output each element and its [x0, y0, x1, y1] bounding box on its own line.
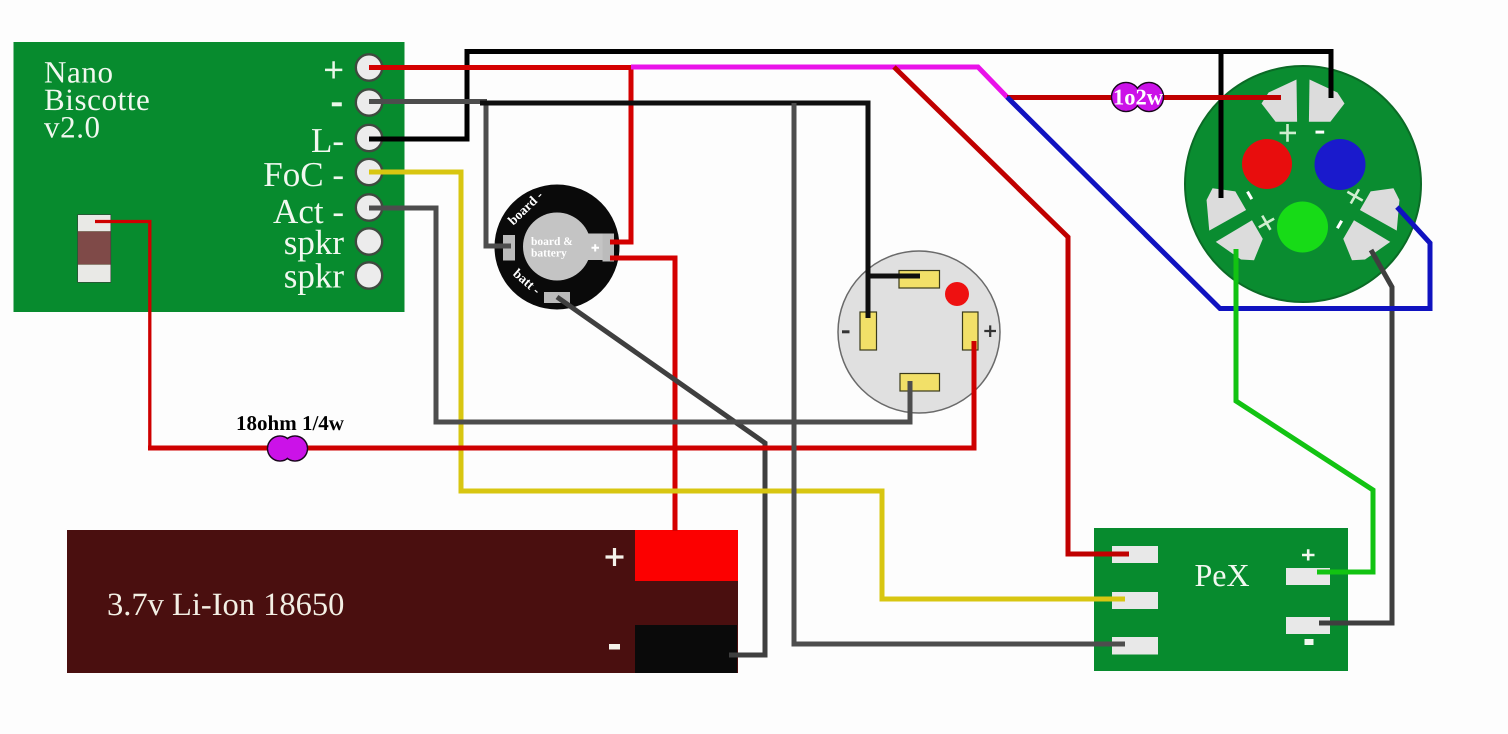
battery positive terminal: [635, 530, 738, 581]
svg-text:18ohm 1/4w: 18ohm 1/4w: [236, 411, 345, 435]
switch S1 left pad: [860, 312, 877, 350]
wire magenta + rail: [631, 67, 1007, 97]
resistor R1 18ohm 1/4w: [236, 411, 345, 461]
svg-text:FoC -: FoC -: [263, 155, 344, 194]
LED die red: [1242, 139, 1292, 189]
switch S1 body: [838, 251, 1000, 413]
wire red recharge port to battery +: [610, 258, 675, 531]
wire red + feed to LED star through R2: [1007, 95, 1281, 100]
recharge port bottom terminal (batt -): [544, 292, 570, 303]
pad + of U1: [356, 54, 382, 80]
LED die green: [1277, 202, 1328, 253]
switch S1 bottom pad: [900, 374, 940, 392]
PeX output pad +: [1286, 568, 1330, 585]
wire grey ground down to PeX pad 3: [794, 103, 1125, 644]
wire yellow FoC- to PeX pad 2: [369, 172, 1125, 599]
wire red switch LED through R1: [148, 341, 974, 448]
wire grey ground down to recharge port board-: [486, 102, 511, 247]
svg-text:battery: battery: [531, 248, 567, 260]
pad spkr2 of U1: [356, 262, 382, 288]
wire black L- net: U1 L- pad up and across to LED star: [369, 52, 1331, 140]
battery negative terminal: [635, 625, 737, 673]
recharge port right terminal (board & battery +): [603, 234, 615, 262]
switch S1 label +: [984, 325, 996, 337]
battery BT1 3.7v Li-Ion 18650 body: [67, 530, 738, 673]
PeX output pad -: [1286, 617, 1330, 634]
svg-text:v2.0: v2.0: [44, 110, 101, 145]
resistor R2 1o2w: [1112, 83, 1164, 112]
svg-text:PeX: PeX: [1194, 557, 1249, 593]
pad FoC- of U1: [356, 159, 382, 185]
pad Act- of U1: [356, 194, 382, 220]
wire black ground across to switch left pad: [480, 103, 868, 318]
LED star D1 Tri-Cree body: [1185, 66, 1421, 302]
wire grey LED star to PeX -: [1319, 250, 1392, 623]
wire green LED star to PeX +: [1236, 249, 1373, 572]
wire red from onboard resistor down to R1 rail: [95, 222, 150, 447]
wire black branch to switch top pad: [868, 274, 920, 279]
LED star pad pair top (red + / -): [1262, 80, 1345, 142]
switch S1 right pad: [963, 312, 979, 350]
onboard resistor component of U1: [78, 215, 111, 282]
wire grey Act- to switch bottom pad: [369, 208, 910, 422]
switch S1 top pad: [899, 271, 940, 289]
PeX input pad 1 (red +): [1112, 546, 1158, 563]
wire blue to LED star blue- pad: [1007, 97, 1430, 309]
soundboard U1 Nano Biscotte v2.0: [14, 42, 405, 312]
switch S1 label -: [842, 330, 850, 333]
PeX input pad 3 (ground): [1112, 637, 1158, 655]
wire grey recharge batt- to battery - terminal: [557, 297, 765, 655]
switch S1 LED dot: [945, 282, 969, 306]
svg-text:1o2w: 1o2w: [1113, 85, 1164, 110]
LED star pad pair lower-left (green): [1192, 169, 1287, 272]
LED star pad pair lower-right (blue): [1319, 169, 1414, 272]
recharge port center contact blob: [523, 213, 591, 281]
svg-text:spkr: spkr: [284, 257, 345, 296]
svg-text:3.7v Li-Ion 18650: 3.7v Li-Ion 18650: [107, 587, 344, 623]
wire red + feed to PeX pad 1: [894, 67, 1129, 554]
recharge port label board & battery +: [531, 236, 599, 260]
pad spkr1 of U1: [356, 228, 382, 254]
svg-text:board &: board &: [531, 236, 573, 248]
PeX input pad 2 (yellow FoC): [1112, 592, 1158, 609]
recharge port left terminal (board -): [503, 235, 515, 261]
wire black branch down to LED star green-side pad: [1219, 49, 1224, 198]
wire grey ground from U1 - pad: [369, 99, 487, 104]
pad - of U1: [356, 89, 382, 115]
wire red + from U1 to recharge port: [369, 68, 631, 243]
pad L- of U1: [356, 125, 382, 151]
LED die blue: [1315, 139, 1366, 190]
driver board PeX: [1094, 528, 1348, 671]
recharge port J1 ring: [495, 185, 620, 310]
